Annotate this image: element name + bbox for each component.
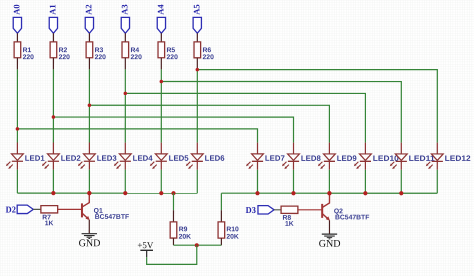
LED LED4 — [114, 143, 154, 170]
resistor R10 20K — [218, 222, 239, 241]
svg-text:LED7: LED7 — [265, 154, 285, 163]
pin flag A4 — [157, 17, 165, 33]
junction LED11 rail — [399, 191, 403, 195]
wire R7 to Q1 base — [58, 208, 82, 210]
LED LED12 — [426, 143, 472, 170]
svg-text:A0: A0 — [11, 4, 21, 14]
lead below R5 — [160, 58, 162, 70]
junction node A3 — [124, 92, 128, 96]
wire flag A4 to R5 — [160, 33, 162, 42]
svg-text:D2: D2 — [6, 205, 17, 215]
pin flag A3 — [121, 17, 129, 33]
junction LED2 rail — [51, 191, 55, 195]
svg-text:R3: R3 — [95, 47, 104, 54]
svg-text:BC547BTF: BC547BTF — [95, 214, 129, 221]
junction LED10 rail — [363, 191, 367, 195]
svg-text:R10: R10 — [226, 226, 239, 233]
pin flag D3 — [258, 206, 274, 214]
LED LED7 — [246, 143, 285, 170]
svg-text:GND: GND — [319, 239, 341, 250]
svg-text:LED10: LED10 — [373, 154, 400, 163]
svg-text:220: 220 — [167, 54, 179, 61]
junction R9 tap — [171, 191, 175, 195]
wire column A3 — [124, 69, 126, 142]
wire LED4 cathode — [124, 170, 126, 194]
lead below R2 — [52, 58, 54, 70]
svg-text:LED3: LED3 — [97, 154, 118, 163]
svg-text:LED9: LED9 — [337, 154, 358, 163]
svg-text:1K: 1K — [285, 221, 294, 228]
wire rail to R9 — [172, 193, 174, 210]
resistor R7 1K — [41, 206, 58, 228]
svg-text:220: 220 — [95, 54, 107, 61]
svg-text:LED11: LED11 — [409, 154, 436, 163]
wire LED8 cathode — [292, 170, 294, 194]
svg-text:GND: GND — [79, 238, 101, 249]
junction node A4 — [160, 80, 164, 84]
power +5V — [137, 240, 153, 257]
junction LED5 rail — [159, 191, 163, 195]
wire left cathode rail — [17, 192, 197, 194]
pin flag D2 — [17, 205, 33, 213]
ground GND1 — [79, 234, 101, 250]
LED LED5 — [150, 143, 190, 170]
wire R8 to Q2 base — [298, 209, 322, 211]
wire net A5 to LED12 — [197, 70, 437, 143]
wire column A2 — [88, 69, 90, 142]
svg-text:A1: A1 — [47, 4, 57, 14]
ground GND2 — [319, 234, 341, 250]
svg-text:A3: A3 — [119, 4, 129, 14]
svg-text:BC547BTF: BC547BTF — [335, 214, 369, 221]
resistor R3 220 — [86, 42, 106, 61]
net label A3 — [119, 4, 129, 14]
wire flag A2 to R3 — [88, 33, 90, 42]
resistor R8 1K — [281, 206, 298, 228]
junction node A0 — [16, 127, 20, 131]
svg-text:20K: 20K — [179, 234, 192, 241]
junction +5V tap — [195, 243, 199, 247]
wire LED5 cathode — [160, 170, 162, 194]
svg-text:R9: R9 — [179, 226, 188, 233]
lead below R1 — [16, 58, 18, 70]
junction LED7 rail — [255, 191, 259, 195]
wire column A0 — [16, 69, 18, 142]
wire right cathode rail — [221, 192, 437, 194]
net label A1 — [47, 4, 57, 14]
wire flag A1 to R2 — [52, 33, 54, 42]
svg-text:LED1: LED1 — [25, 154, 46, 163]
net label A4 — [155, 4, 165, 15]
wire Q1 emitter to GND — [88, 220, 90, 233]
junction node A2 — [88, 104, 92, 108]
resistor R5 220 — [158, 42, 178, 61]
svg-text:A4: A4 — [155, 4, 165, 15]
wire D2 to R7 — [33, 208, 41, 210]
svg-text:D3: D3 — [246, 205, 257, 215]
resistor R6 220 — [194, 42, 214, 61]
wire LED11 cathode — [400, 170, 402, 194]
net label A0 — [11, 4, 21, 14]
wire flag A0 to R1 — [16, 33, 18, 42]
svg-text:R4: R4 — [131, 47, 140, 54]
wire LED2 cathode — [52, 170, 54, 194]
resistor R9 20K — [170, 222, 191, 241]
LED LED6 — [186, 143, 226, 170]
svg-text:220: 220 — [203, 54, 215, 61]
svg-text:R1: R1 — [23, 47, 32, 54]
wire Q2 emitter to GND — [328, 220, 330, 233]
LED LED3 — [78, 143, 118, 170]
junction node A5 — [196, 68, 200, 72]
junction node A1 — [52, 115, 56, 119]
LED LED9 — [318, 143, 358, 170]
wire LED6 cathode — [196, 170, 198, 194]
svg-text:220: 220 — [23, 54, 35, 61]
junction LED9 rail — [327, 191, 331, 195]
wire LED10 cathode — [364, 170, 366, 194]
pin flag A2 — [85, 17, 93, 33]
net label D2 — [6, 205, 17, 215]
svg-text:220: 220 — [59, 54, 71, 61]
svg-text:R6: R6 — [203, 47, 212, 54]
svg-text:LED12: LED12 — [445, 154, 472, 163]
junction LED3 rail — [87, 191, 91, 195]
net label D3 — [246, 205, 257, 215]
junction Q1 collector — [87, 191, 91, 195]
wire +5V feed — [147, 245, 197, 264]
wire right rail to R10 — [220, 193, 222, 210]
pin flag A0 — [13, 17, 21, 33]
LED LED10 — [354, 143, 400, 170]
wire net A0 to LED7 — [17, 129, 257, 143]
wire net A2 to LED9 — [89, 105, 329, 142]
lead R10 top — [220, 210, 222, 222]
svg-text:+5V: +5V — [137, 240, 153, 250]
junction Q2 collector — [327, 191, 331, 195]
wire net A1 to LED8 — [53, 117, 293, 143]
wire column A1 — [52, 69, 54, 142]
wire LED9 cathode — [328, 170, 330, 194]
svg-text:LED4: LED4 — [133, 154, 154, 163]
svg-text:20K: 20K — [226, 234, 239, 241]
wire flag A3 to R4 — [124, 33, 126, 42]
svg-text:1K: 1K — [45, 220, 54, 227]
svg-text:R5: R5 — [167, 47, 176, 54]
wire flag A5 to R6 — [196, 33, 198, 42]
lead below R3 — [88, 58, 90, 70]
svg-text:220: 220 — [131, 54, 143, 61]
lead below R4 — [124, 58, 126, 70]
LED LED1 — [6, 143, 46, 170]
resistor R2 220 — [50, 42, 70, 61]
wire LED7 cathode — [256, 170, 258, 194]
LED LED2 — [42, 143, 82, 170]
junction LED8 rail — [291, 191, 295, 195]
junction LED4 rail — [123, 191, 127, 195]
net label A5 — [191, 4, 201, 14]
wire D3 to R8 — [274, 209, 281, 211]
resistor R4 220 — [122, 42, 142, 61]
pin flag A5 — [193, 17, 201, 33]
svg-text:A2: A2 — [83, 4, 93, 14]
LED LED11 — [390, 143, 436, 170]
resistor R1 220 — [14, 42, 34, 61]
wire LED12 cathode — [436, 170, 438, 193]
wire net A3 to LED10 — [125, 93, 365, 142]
lead R10 bottom — [220, 238, 222, 245]
lead below R6 — [196, 58, 198, 70]
transistor Q1 BC547BTF — [82, 194, 129, 221]
LED LED8 — [282, 143, 322, 170]
wire bottom rail — [173, 244, 221, 246]
svg-text:LED8: LED8 — [301, 154, 322, 163]
transistor Q2 BC547BTF — [322, 194, 369, 222]
svg-text:A5: A5 — [191, 4, 201, 14]
wire LED3 cathode — [88, 170, 90, 193]
wire LED1 cathode — [16, 170, 18, 194]
lead R9 bottom — [172, 238, 174, 245]
pin flag A1 — [49, 17, 57, 33]
wire column A5 — [196, 69, 198, 142]
wire net A4 to LED11 — [161, 81, 401, 142]
svg-text:R2: R2 — [59, 47, 68, 54]
svg-text:LED5: LED5 — [169, 154, 190, 163]
net label A2 — [83, 4, 93, 14]
wire column A4 — [160, 69, 162, 142]
svg-text:LED6: LED6 — [205, 154, 226, 163]
lead R9 top — [172, 210, 174, 222]
svg-text:LED2: LED2 — [61, 154, 82, 163]
